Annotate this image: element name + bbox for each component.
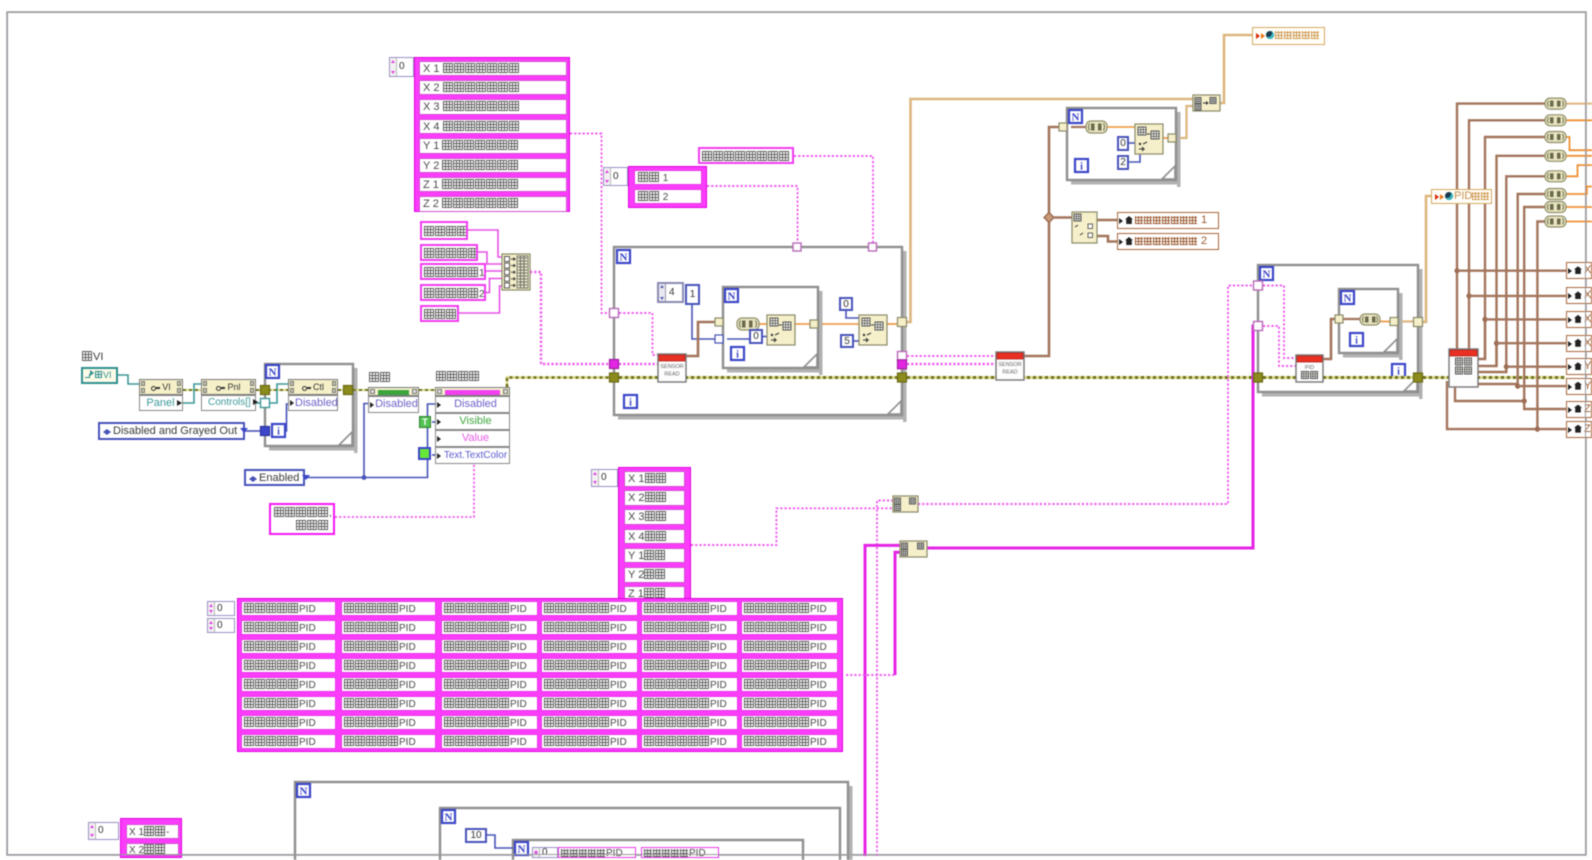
wire: error line to runtime vi and right <box>1423 376 1565 379</box>
label displacement sensor <box>420 244 478 261</box>
cluster node A <box>893 496 918 512</box>
dynamic inner index <box>532 847 558 858</box>
index-array pill (pid inner) <box>1360 314 1380 325</box>
static-state array <box>618 467 691 602</box>
wire: count 10 to bottom inner loop <box>487 835 513 848</box>
property node status-hint <box>435 387 510 396</box>
wire: error line inside PID loop <box>1263 376 1414 379</box>
label: this-VI caption <box>82 351 122 364</box>
constant 0 loop1 <box>839 297 853 311</box>
tunnel: pid inner out <box>1390 318 1398 326</box>
tunnel: error out left-loop <box>344 386 353 395</box>
inner loop N <box>725 289 738 302</box>
wire: teal Controls[] into loop <box>256 402 261 404</box>
constant 1 <box>685 284 700 305</box>
wire: node B out to PID loop tunnel <box>927 326 1254 548</box>
N <box>1260 267 1273 280</box>
sensor-calibration array index <box>389 57 414 77</box>
loop i terminal <box>624 395 637 408</box>
bottom for-loop outer <box>849 786 853 860</box>
wire: PID loop out up to PID-params global <box>1423 196 1431 322</box>
constant 0 top loop <box>1117 136 1129 151</box>
wire: teal Panel ref <box>183 384 201 403</box>
for-loop around Ctl property node <box>354 368 358 453</box>
property node Pnl <box>201 379 256 395</box>
wire: sensor name labels to bundle node <box>468 230 502 257</box>
wire: init-string to Value/TextColor <box>335 464 474 517</box>
tunnel: inner1 in <box>715 318 723 326</box>
wire: const 5 to replace2 <box>854 340 859 342</box>
inner for-loop PID <box>1399 293 1403 360</box>
index-array pill (top loop) <box>1086 121 1107 133</box>
wire: PID inner out to outer tunnel <box>1402 320 1414 322</box>
wire: bundle output to loop tunnel <box>530 272 610 364</box>
tunnel: loop1 out c1 <box>898 352 907 361</box>
wire: riser from dynamic section to node B <box>865 545 900 856</box>
wire: colorbox to Text.TextColor <box>432 454 435 456</box>
tunnel: error exit loop-left <box>261 386 270 395</box>
wire: tunnel2 to SENSOR READ <box>619 363 658 366</box>
inner loop i <box>731 347 744 360</box>
this-VI reference constant <box>81 367 118 384</box>
wire: loop1 array out up to cluster-builder <box>907 99 1193 322</box>
wire: inner loop out to replace2 <box>795 323 814 325</box>
PID grid index 2 <box>207 618 235 633</box>
PID grid index 1 <box>207 601 235 616</box>
for-loop top-right <box>1177 112 1181 187</box>
label reserved sensor 1 <box>420 263 486 280</box>
wire: static array to cluster-node A <box>691 508 893 545</box>
wire: main error line loop1 to PID loop <box>907 376 1254 379</box>
inner for-loop 1 <box>819 291 823 375</box>
label: exit caption <box>369 372 399 385</box>
color box constant green <box>418 447 431 460</box>
PID read subVI <box>1296 355 1323 382</box>
enum constant Disabled and Grayed Out <box>98 422 245 440</box>
wire: pressure array down to loop top <box>707 186 798 243</box>
wire: sensor-calib array to loop tunnel <box>570 134 610 314</box>
wire: PID loop tunnel2 to PID-read vi <box>1263 326 1296 366</box>
tunnel: pid err out <box>1414 373 1423 382</box>
wire: unbundle to local 1 <box>1097 219 1117 222</box>
wire: top loop index-array <box>1071 126 1086 128</box>
wire: replace2 to out tunnel <box>887 323 898 325</box>
tunnel: pid loop in2 <box>1254 322 1263 331</box>
pills right column <box>1545 98 1566 109</box>
wire: runtime vi output bus 8 <box>1447 222 1545 430</box>
tunnel: top loop out <box>1168 134 1176 142</box>
wire: runtime vi output bus 2 <box>1469 120 1545 349</box>
tunnel: pid err in <box>1254 373 1263 382</box>
dynamic PID cell 1 <box>558 847 636 858</box>
property node exit (boolean) <box>368 387 419 396</box>
wire: error Pnl to loop <box>256 389 262 391</box>
enum constant Enabled <box>244 469 305 486</box>
replace-array node 2 (loop1) <box>859 315 887 345</box>
tunnel: label top1 <box>869 243 877 251</box>
i <box>1350 333 1363 346</box>
wire: const 2 to replace (top) <box>1129 154 1140 162</box>
wire: cluster-builder to sensor-params global <box>1220 35 1252 103</box>
tunnel: loop1 out c2 <box>898 360 907 369</box>
junction: brown branch to unbundle <box>1044 213 1054 223</box>
wire: calib-params label down to loop top <box>794 156 873 243</box>
wire: runtime vi output bus 4 <box>1477 156 1545 366</box>
global sensor params <box>1252 27 1325 45</box>
dynamic PID cell 2 <box>641 847 719 858</box>
cluster-builder node C <box>1193 95 1220 111</box>
wire: enum Enabled to property inputs <box>305 404 435 478</box>
bottom for-loop inner <box>513 840 803 860</box>
global PID params <box>1431 189 1492 204</box>
unbundle node (pressure params) <box>1072 212 1097 243</box>
tunnel: label top2 <box>793 243 801 251</box>
static-state array index <box>591 469 618 487</box>
pressure array <box>628 166 707 208</box>
wire: PID grid out to node B <box>846 674 895 676</box>
tunnel: error in l1 <box>610 373 619 382</box>
wire: T constant to Visible <box>432 421 435 423</box>
wire: const 0 to replace2 <box>846 311 859 318</box>
wire: error VI to Pnl <box>183 389 201 391</box>
tunnel: inner1 in2 <box>715 335 723 343</box>
for-loop PID-read (right) <box>1419 269 1423 399</box>
wire: runtime vi output bus 5 <box>1477 176 1545 372</box>
constant 5 loop1 <box>840 334 854 348</box>
index-array pill (inner loop1) <box>737 318 759 330</box>
label valve params <box>420 305 459 322</box>
replace-array node (top loop) <box>1135 124 1163 154</box>
property node Ctl <box>288 379 338 395</box>
SENSOR READ subVI 2 <box>996 352 1024 380</box>
right local variables <box>1566 262 1592 279</box>
dynamic array <box>120 818 182 858</box>
constant 10 <box>465 828 487 843</box>
wire: count 1 into inner loop <box>692 305 719 339</box>
small i-box near enum tunnel <box>272 424 285 437</box>
wire: error status-prop up to main line <box>507 378 610 388</box>
wire: SENSOR READ cluster up to inner loop <box>686 322 719 356</box>
tunnel: pid loop out <box>1414 318 1423 327</box>
label: status hint caption <box>436 371 492 384</box>
dynamic array index <box>88 822 119 840</box>
tunnel: inner1 out <box>810 320 818 328</box>
tunnel: error out l1 <box>898 373 907 382</box>
local pressure param 1 <box>1117 212 1219 229</box>
wire: PID-read cluster to inner loop <box>1323 319 1339 359</box>
wire: top loop out to cluster-builder <box>1163 137 1172 139</box>
tunnel: pid loop in1 <box>1254 281 1263 290</box>
loop N terminal <box>617 250 630 263</box>
replace-array node (inner loop1) <box>767 315 795 345</box>
SENSOR READ subVI 1 <box>658 354 686 382</box>
loop N terminal ctl <box>266 365 279 378</box>
N <box>1069 110 1082 123</box>
tunnel: bundle in <box>610 360 619 369</box>
wire: error Ctl to exit-prop <box>338 389 348 391</box>
wire: SENSOR READ2 cluster up to top loop <box>1024 127 1063 356</box>
wire: PID loop tunnel1 to PID-read vi <box>1263 286 1296 359</box>
wire: enum DisabledGrayedOut to loop <box>245 430 261 432</box>
wire: node A out to PID loop tunnel <box>918 286 1254 505</box>
N <box>1341 291 1354 304</box>
wire: runtime vi output bus 3 <box>1477 137 1545 359</box>
static PID grid <box>237 598 843 752</box>
N <box>297 784 310 797</box>
pressure array index <box>603 167 628 186</box>
label pressure-sensor calib params <box>698 147 794 164</box>
constant 2 top loop <box>1117 155 1129 170</box>
tunnel: pid inner in <box>1335 315 1343 323</box>
bottom for-loop middle <box>440 808 840 860</box>
bundle-by-name node <box>502 254 530 290</box>
tunnel: controls in <box>261 399 270 408</box>
tunnel: enum in <box>261 427 270 436</box>
string constant initializing <box>269 503 335 535</box>
local pressure param 2 <box>1117 233 1219 250</box>
wire: loop1 passthru cluster outs to SENSOR READ 2 <box>907 355 996 357</box>
wire: tunnel1 to SENSOR READ <box>619 313 658 355</box>
wire: riser from dynamic section to node A <box>877 501 893 857</box>
label force sensor <box>420 221 468 240</box>
wire: teal VI reference <box>118 375 139 384</box>
i <box>1392 364 1405 377</box>
wire: runtime vi output bus 1 <box>1457 104 1545 349</box>
tunnel: loop1 out <box>898 318 907 327</box>
wire: runtime vi output bus 6 <box>1477 194 1545 384</box>
N <box>515 842 528 855</box>
wire: main error line inside loop1 <box>619 376 898 379</box>
i <box>1075 159 1088 172</box>
wire: runtime vi output bus 7 <box>1455 207 1545 401</box>
wire: 0 const to replace node <box>763 336 767 338</box>
label reserved sensor 2 <box>420 284 486 301</box>
constant 0 inner <box>749 329 763 344</box>
wire: PID inner index-array <box>1343 318 1360 320</box>
cluster node B <box>900 541 927 557</box>
N <box>442 810 455 823</box>
wire: const 0 to replace (top) <box>1129 142 1135 144</box>
for-loop main acquisition (middle) <box>903 251 907 422</box>
runtime params subVI <box>1449 349 1478 387</box>
wire: pill outputs to edge <box>1566 103 1592 105</box>
wire: error exit-prop to status-prop <box>419 389 435 391</box>
count spinner 4 <box>657 282 684 303</box>
wire: unbundle to local 2 <box>1097 236 1117 242</box>
sensor-calibration array <box>414 57 570 212</box>
tunnel: calib in <box>610 309 619 318</box>
tunnel: top loop in <box>1059 123 1067 131</box>
wire: index-array to replace (inner loop1) <box>759 323 767 325</box>
boolean True constant <box>419 416 431 428</box>
